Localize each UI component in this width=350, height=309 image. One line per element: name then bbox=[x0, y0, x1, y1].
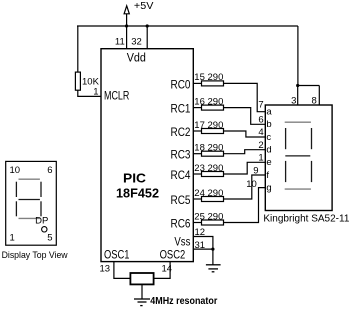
ground resonator bbox=[134, 299, 150, 306]
resistor R1 10K bbox=[75, 72, 80, 90]
svg-text:f: f bbox=[266, 170, 269, 181]
wire pin 8 down bbox=[318, 86, 320, 106]
wire RC1 pin 16 bbox=[193, 107, 201, 109]
svg-text:a: a bbox=[266, 107, 272, 118]
svg-text:RC3: RC3 bbox=[171, 150, 191, 162]
wire Vss pin 31 bbox=[193, 248, 213, 250]
svg-text:25 290: 25 290 bbox=[194, 211, 223, 222]
wire RC2 pin 17 bbox=[193, 130, 201, 132]
svg-text:1: 1 bbox=[258, 152, 263, 163]
svg-text:12: 12 bbox=[195, 227, 206, 238]
svg-text:d: d bbox=[266, 145, 271, 156]
svg-text:6: 6 bbox=[258, 114, 263, 125]
top view segment g bbox=[19, 199, 40, 201]
wire resonator to OSC2 bbox=[154, 262, 171, 279]
wire RC0 pin 15 bbox=[193, 82, 201, 84]
resistor R6 290 (RC4-e) bbox=[202, 172, 224, 177]
svg-text:16 290: 16 290 bbox=[194, 96, 223, 107]
svg-text:1: 1 bbox=[10, 233, 15, 244]
wire RC4 to segment e bbox=[224, 162, 266, 174]
node junction pin11 rail bbox=[125, 24, 128, 27]
svg-text:13: 13 bbox=[100, 263, 111, 274]
svg-text:11: 11 bbox=[115, 37, 125, 48]
resistor R2 290 (RC0-a) bbox=[202, 81, 224, 86]
svg-text:Kingbright SA52-11: Kingbright SA52-11 bbox=[263, 212, 349, 224]
wire RC5 pin 24 bbox=[193, 198, 201, 200]
wire Vdd pin 11 bbox=[126, 26, 128, 49]
svg-text:7: 7 bbox=[258, 100, 263, 111]
svg-text:6: 6 bbox=[47, 165, 52, 176]
wire junction to ground bbox=[212, 249, 214, 265]
segment e bar bbox=[285, 161, 287, 182]
svg-text:b: b bbox=[266, 119, 271, 130]
wire resonator to ground bbox=[141, 284, 143, 299]
wire pin 3 down bbox=[297, 86, 299, 106]
wire rail to display pin 3 bbox=[297, 26, 299, 86]
segment b bar bbox=[311, 128, 313, 149]
top view segment b bbox=[40, 182, 42, 197]
segment f bar bbox=[285, 128, 287, 149]
resistor R5 290 (RC3-d) bbox=[202, 151, 224, 156]
svg-text:RC5: RC5 bbox=[171, 195, 191, 207]
wire RC2 to segment c bbox=[224, 131, 266, 137]
wire RC6 to segment g bbox=[224, 188, 266, 223]
top view segment d bbox=[19, 217, 40, 219]
svg-text:5: 5 bbox=[47, 233, 52, 244]
resistor R3 290 (RC1-b) bbox=[202, 105, 224, 110]
segment g bar bbox=[285, 155, 310, 157]
svg-text:OSC2: OSC2 bbox=[160, 249, 186, 261]
top view segment f bbox=[15, 182, 17, 197]
svg-text:15 290: 15 290 bbox=[194, 72, 223, 83]
svg-text:32: 32 bbox=[131, 37, 142, 48]
wire RC4 pin 23 bbox=[193, 173, 201, 175]
wire RC3 to segment d bbox=[224, 150, 266, 154]
wire power rail bbox=[77, 25, 298, 27]
svg-text:4MHz resonator: 4MHz resonator bbox=[150, 296, 217, 307]
resonator X1 body bbox=[130, 273, 153, 284]
op-amp U1 PIC 18F452 body bbox=[101, 49, 193, 262]
wire RC0 to segment a bbox=[224, 83, 266, 111]
svg-text:24 290: 24 290 bbox=[194, 188, 223, 199]
svg-text:2: 2 bbox=[258, 140, 263, 151]
top view segment e bbox=[15, 201, 17, 216]
svg-text:g: g bbox=[266, 183, 271, 194]
wire RC5 to segment f bbox=[224, 175, 266, 199]
wire rail to resistor R1 bbox=[77, 26, 79, 72]
wire Vss pin 12 bbox=[193, 237, 213, 250]
node junction display supply bbox=[296, 84, 299, 87]
svg-text:23 290: 23 290 bbox=[194, 163, 223, 174]
display top view body bbox=[6, 161, 57, 245]
decimal point circle bbox=[42, 227, 47, 232]
resistor R8 290 (RC6-g) bbox=[202, 220, 224, 225]
svg-text:9: 9 bbox=[253, 165, 258, 176]
node junction Vss bbox=[211, 248, 214, 251]
top view segment a bbox=[19, 178, 40, 180]
svg-text:DP: DP bbox=[35, 216, 48, 227]
segment a bar bbox=[285, 121, 311, 123]
svg-text:RC1: RC1 bbox=[171, 104, 191, 116]
wire Vdd pin 32 bbox=[146, 26, 148, 49]
segment d bar bbox=[285, 188, 311, 190]
svg-text:RC2: RC2 bbox=[171, 127, 191, 139]
svg-text:10: 10 bbox=[246, 179, 257, 190]
7-segment display U2 body bbox=[265, 105, 332, 211]
wire OSC1 to resonator bbox=[114, 262, 130, 279]
svg-text:10: 10 bbox=[10, 165, 21, 176]
wire RC3 pin 18 bbox=[193, 153, 201, 155]
svg-text:RC4: RC4 bbox=[171, 170, 192, 182]
svg-text:MCLR: MCLR bbox=[104, 91, 129, 103]
segment c bar bbox=[311, 161, 313, 182]
ground Vss bbox=[206, 265, 221, 272]
svg-text:RC0: RC0 bbox=[171, 79, 191, 91]
top view segment c bbox=[40, 201, 42, 216]
svg-text:1: 1 bbox=[93, 87, 98, 98]
+5V power symbol bbox=[124, 6, 129, 26]
svg-text:Vss: Vss bbox=[174, 237, 190, 249]
resistor R7 290 (RC5-f) bbox=[202, 197, 224, 202]
svg-text:31: 31 bbox=[195, 240, 206, 251]
svg-text:e: e bbox=[266, 157, 271, 168]
resistor R4 290 (RC2-c) bbox=[202, 129, 224, 134]
svg-text:4: 4 bbox=[258, 127, 263, 138]
svg-text:17 290: 17 290 bbox=[194, 120, 223, 131]
svg-text:Display Top View: Display Top View bbox=[2, 250, 68, 261]
wire RC6 pin 25 bbox=[193, 222, 201, 224]
svg-text:OSC1: OSC1 bbox=[104, 249, 130, 261]
wire junction to pin 8 bbox=[298, 85, 320, 87]
wire R1 to MCLR bbox=[78, 90, 101, 96]
svg-text:18 290: 18 290 bbox=[194, 143, 223, 154]
svg-text:c: c bbox=[266, 132, 271, 143]
node junction pin32 rail bbox=[146, 24, 149, 27]
svg-text:RC6: RC6 bbox=[171, 219, 191, 231]
svg-text:18F452: 18F452 bbox=[116, 185, 159, 200]
svg-text:PIC: PIC bbox=[123, 170, 147, 185]
svg-text:Vdd: Vdd bbox=[127, 53, 146, 65]
svg-text:+5V: +5V bbox=[134, 1, 154, 12]
wire RC1 to segment b bbox=[224, 108, 266, 125]
